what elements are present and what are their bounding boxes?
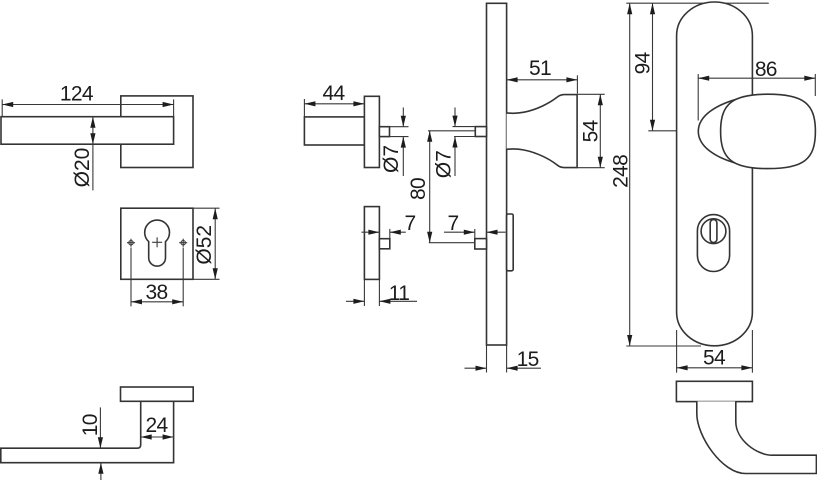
lever rosette (front view) — [676, 381, 752, 401]
PZ cylinder hole — [145, 220, 170, 266]
lever bar (top view) — [1, 117, 174, 145]
dimension 38 extension lines — [130, 248, 132, 307]
dimension 124 extension lines — [1, 99, 3, 116]
dimension 7 extension line — [389, 229, 391, 239]
svg-text:86: 86 — [755, 58, 777, 81]
svg-text:248: 248 — [609, 155, 632, 188]
dimension 24 line — [141, 436, 174, 438]
svg-text:Ø52: Ø52 — [193, 225, 216, 265]
dimension 54 line (knob) — [599, 94, 601, 167]
spindle axis extension line — [428, 130, 475, 132]
svg-text:38: 38 — [146, 281, 168, 304]
dimension 7 arrows — [444, 231, 475, 233]
svg-text:124: 124 — [60, 82, 94, 105]
spindle hub — [379, 127, 389, 137]
dimension D52 extension lines — [193, 207, 220, 209]
bottom extension line — [626, 345, 701, 347]
svg-text:54: 54 — [703, 347, 726, 370]
knob profile (side view) — [507, 95, 577, 168]
center cross — [152, 241, 162, 243]
dimension 7 extension line — [474, 229, 476, 239]
dimension D7 extension lines — [453, 126, 476, 128]
dimension 54 extension lines (plate) — [676, 330, 678, 373]
lower fixing hub (back side) — [475, 239, 487, 249]
dimension D20 line — [92, 117, 94, 191]
lower fixing axis extension line — [429, 242, 475, 244]
cylinder cover disc — [701, 219, 726, 244]
svg-text:54: 54 — [579, 119, 602, 142]
svg-text:10: 10 — [79, 414, 102, 436]
lower fixing stub — [379, 239, 389, 249]
dimension 51 line — [507, 79, 578, 81]
clipped bottom arrow — [100, 463, 102, 480]
svg-text:24: 24 — [146, 414, 169, 437]
dimension 38 line — [131, 301, 183, 303]
knob neck (front view) — [698, 97, 744, 165]
dimension 10 line — [99, 407, 101, 448]
dimension D7 arrows — [454, 108, 456, 127]
square rosette (top view) — [121, 96, 193, 168]
svg-text:Ø20: Ø20 — [71, 148, 94, 188]
backplate (front view) — [677, 2, 753, 346]
rosette (side view) — [364, 96, 379, 167]
dimension D7 arrows — [402, 108, 404, 127]
dimension 51 extension line — [576, 75, 578, 93]
svg-text:80: 80 — [407, 178, 430, 200]
left screw — [129, 241, 133, 245]
dimension 15 arrows — [465, 367, 487, 369]
dimension 11 arrows — [346, 300, 364, 302]
dimension 54 line (plate) — [677, 367, 753, 369]
dimension 44 line — [304, 103, 364, 105]
rosette (side view) — [121, 387, 194, 401]
top extension line — [626, 2, 769, 4]
grip (side view) — [304, 117, 364, 145]
lower fixing rosette (side view) — [364, 207, 379, 280]
lever handle (front view) — [697, 401, 817, 473]
svg-text:51: 51 — [529, 57, 551, 80]
lever handle profile — [1, 401, 174, 462]
svg-text:94: 94 — [631, 51, 654, 74]
dimension 7 arrows — [362, 231, 380, 233]
svg-text:Ø7: Ø7 — [380, 145, 403, 173]
dimension 124 line — [2, 104, 173, 106]
knob cap (front view) — [721, 94, 816, 168]
backplate (side view) — [487, 3, 507, 345]
svg-text:7: 7 — [448, 212, 459, 235]
dimension 54 extension lines (knob) — [577, 93, 605, 95]
spindle hub (back side) — [475, 127, 486, 137]
dimension 11 extension lines — [363, 279, 365, 306]
dimension D52 line — [214, 208, 216, 279]
svg-text:Ø7: Ø7 — [433, 150, 456, 178]
dimension 44 extension line — [303, 99, 305, 117]
svg-text:11: 11 — [389, 282, 409, 305]
svg-text:44: 44 — [323, 82, 346, 105]
svg-text:15: 15 — [517, 348, 539, 371]
square rosette (front view) — [121, 208, 193, 279]
svg-text:7: 7 — [405, 212, 416, 235]
dimension 86 line — [698, 77, 815, 79]
dimension 86 extension lines — [697, 74, 699, 121]
dimension D7 extension lines — [390, 126, 409, 128]
cylinder cover slot — [710, 220, 717, 243]
knob axis extension line — [648, 130, 697, 132]
cylinder housing (front side) — [507, 214, 514, 271]
right screw — [181, 241, 185, 245]
dimension 80 line — [429, 131, 431, 243]
dimension 94 line — [652, 3, 654, 131]
dimension 248 line — [629, 3, 631, 346]
dimension 15 extension lines — [486, 345, 488, 373]
cylinder cover oval — [697, 215, 729, 272]
